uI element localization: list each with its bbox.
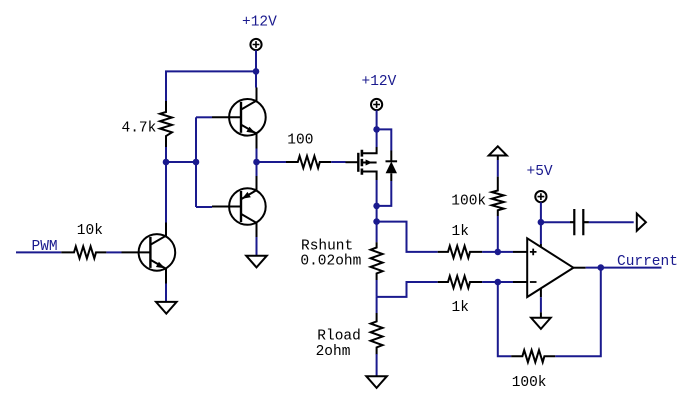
ground (under Q2) xyxy=(246,256,267,268)
resistor R4 100k xyxy=(492,177,504,216)
transistor Q2 (PNP, bottom of push-pull) xyxy=(212,176,266,237)
wire: node down to Q2 emitter xyxy=(256,162,258,176)
wire: node to bases line xyxy=(166,161,196,163)
wire: plus node to op-amp xyxy=(498,251,513,253)
wire: to Q2 base xyxy=(196,206,212,208)
port arrow (right, bypass) xyxy=(637,214,646,231)
value label 0.02ohm xyxy=(300,254,361,270)
port arrow (top, to 100k) xyxy=(489,146,507,160)
wire: 100k to plus node xyxy=(497,216,499,252)
wire: to sense tap xyxy=(376,206,378,222)
resistor R7 100k (feedback) xyxy=(511,350,555,362)
svg-text:0.02ohm: 0.02ohm xyxy=(300,254,361,270)
transistor M1 (N-MOSFET) xyxy=(346,147,377,180)
svg-text:Current: Current xyxy=(617,254,678,270)
node: shunt top sense tap xyxy=(373,218,380,225)
value label 100k (bottom) xyxy=(512,375,547,391)
wire: Rshunt bottom to tee xyxy=(376,280,378,297)
value label Rload xyxy=(317,329,361,345)
wire: feedback loop xyxy=(555,268,601,357)
resistor R3 100 xyxy=(286,156,331,168)
wire: +12V node to Q1 collector xyxy=(255,71,257,87)
wire: op-amp output xyxy=(586,267,662,269)
resistor R5 1k (+) xyxy=(438,246,482,258)
value label 4.7k xyxy=(122,121,157,137)
svg-text:+5V: +5V xyxy=(527,164,553,180)
op-amp U1 xyxy=(513,238,586,297)
value label 1k (bottom) xyxy=(452,300,469,316)
node: op-amp + input xyxy=(495,249,502,256)
wire: tee down to Rload xyxy=(376,297,378,313)
node: source/diode junction xyxy=(373,203,380,210)
wire: sense tap down to Rshunt xyxy=(376,222,378,243)
node: emitters junction xyxy=(253,159,260,166)
wire: Rload to ground xyxy=(376,354,378,376)
svg-text:+12V: +12V xyxy=(362,74,397,90)
svg-text:+12V: +12V xyxy=(242,15,277,31)
svg-text:1k: 1k xyxy=(452,300,469,316)
wire: bases vertical xyxy=(195,117,197,207)
resistor Rload 2ohm xyxy=(371,313,383,355)
svg-text:100: 100 xyxy=(287,133,313,149)
svg-text:4.7k: 4.7k xyxy=(122,121,157,137)
resistor R2 10k xyxy=(61,246,106,258)
node: +5V junction xyxy=(538,219,545,226)
value label 100 xyxy=(287,133,313,149)
value label Rshunt xyxy=(301,239,353,255)
value label 100k (top) xyxy=(451,194,486,210)
node: MOSFET drain junction xyxy=(373,126,380,133)
wire: +5V to op-amp V+ xyxy=(540,222,542,244)
wire: node to Q3 collector xyxy=(165,162,167,223)
resistor R1 4.7k xyxy=(160,101,172,147)
wire: op-amp V- to ground xyxy=(540,297,542,312)
svg-text:1k: 1k xyxy=(452,224,469,240)
net label +12V (MOSFET) xyxy=(362,74,397,90)
wire: shunt bottom tap to 1k (-) xyxy=(377,282,438,297)
resistor Rshunt 0.02ohm xyxy=(371,242,383,280)
wire: arrow to 100k xyxy=(497,160,499,177)
wire: drain node to MOSFET xyxy=(376,129,378,147)
ground (under op-amp) xyxy=(531,318,551,329)
power symbol +12V (MOSFET) xyxy=(371,99,382,129)
diode D1 (body diode branch) xyxy=(377,129,398,206)
svg-text:100k: 100k xyxy=(512,375,547,391)
wire: PWM input xyxy=(16,251,61,253)
resistor R6 1k (-) xyxy=(438,276,482,288)
wire: emitters node to gate resistor xyxy=(257,161,287,163)
net label +5V xyxy=(527,164,553,180)
net label PWM xyxy=(32,239,58,255)
net label +12V (left) xyxy=(242,15,277,31)
ground (under Rload) xyxy=(366,376,387,388)
svg-text:100k: 100k xyxy=(451,194,486,210)
wire: Q2 collector to ground xyxy=(256,237,258,256)
wire: MOSFET source down xyxy=(376,180,378,206)
node: top-left +12V junction xyxy=(253,68,260,75)
wire: 10k to Q3 base xyxy=(106,251,121,253)
svg-text:10k: 10k xyxy=(77,223,103,239)
svg-text:Rload: Rload xyxy=(317,329,361,345)
capacitor C1 xyxy=(541,209,634,235)
wire: sense tap to 1k (+) xyxy=(377,222,438,252)
transistor Q3 (NPN driver) xyxy=(122,223,176,284)
wire: minus node down to feedback xyxy=(498,282,511,356)
value label 1k (top) xyxy=(452,224,469,240)
power symbol +12V (left) xyxy=(250,39,261,72)
svg-text:Rshunt: Rshunt xyxy=(301,239,353,255)
node: driver collector junction xyxy=(163,159,170,166)
value label 10k xyxy=(77,223,103,239)
wire: to Q1 base xyxy=(196,116,212,118)
wire: Q1 emitter to output node xyxy=(256,149,258,163)
ground (under Q3) xyxy=(156,302,177,314)
wire: minus node to op-amp xyxy=(498,281,513,283)
wire: 1k to plus node xyxy=(482,251,498,253)
power symbol +5V xyxy=(535,191,546,222)
wire: 100 to MOSFET gate xyxy=(331,161,345,163)
net label Current xyxy=(617,254,678,270)
node: op-amp - input xyxy=(495,279,502,286)
wire: 4.7k bottom to node xyxy=(165,147,167,162)
value label 2ohm xyxy=(316,344,351,360)
transistor Q1 (NPN, top of push-pull) xyxy=(212,88,266,149)
wire: +12V rail to 4.7k xyxy=(166,71,256,101)
node: output junction xyxy=(598,264,605,271)
node: bases junction xyxy=(193,159,200,166)
wire: 1k to minus node xyxy=(482,281,498,283)
svg-text:2ohm: 2ohm xyxy=(316,344,351,360)
wire: Q3 emitter to ground xyxy=(165,284,167,302)
